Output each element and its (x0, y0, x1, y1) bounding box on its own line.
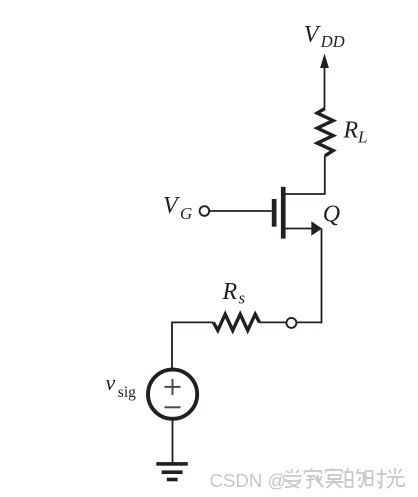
node VDD label (304, 22, 345, 51)
svg-text:Q: Q (323, 202, 340, 228)
char de (346, 468, 364, 487)
ground (156, 462, 188, 481)
source arrow of Q (311, 221, 322, 236)
wire source down to node (321, 229, 323, 324)
node VG label (163, 193, 192, 223)
char shi (366, 469, 387, 488)
wire left corner to Rs (172, 322, 213, 368)
svg-text:v: v (106, 370, 116, 395)
svg-text:sig: sig (118, 384, 136, 401)
char guang (387, 468, 404, 488)
watermark chinese glyphs (284, 468, 404, 488)
svg-text:R: R (343, 118, 359, 144)
wire vsig to ground (172, 418, 174, 463)
svg-text:s: s (239, 289, 246, 308)
svg-text:L: L (357, 128, 367, 147)
plus sign (165, 379, 181, 395)
transistor Q gate bar (272, 199, 277, 227)
char ji (305, 468, 324, 488)
label Rs (222, 279, 246, 308)
wire RL bottom to drain corner (286, 156, 325, 194)
resistor RL (317, 109, 333, 156)
svg-text:V: V (163, 193, 180, 219)
wire VG to gate (209, 210, 271, 212)
svg-text:V: V (304, 22, 321, 48)
VDD supply arrow (320, 54, 329, 69)
node open circle (286, 318, 296, 328)
wire VDD arrow to RL top (324, 66, 326, 109)
svg-text:CSDN @: CSDN @ (210, 470, 287, 491)
wire Rs right to node circle (260, 321, 287, 323)
svg-text:R: R (222, 279, 238, 305)
svg-text:DD: DD (320, 32, 345, 51)
char ai (284, 469, 302, 488)
resistor Rs (213, 314, 259, 330)
label vsig (106, 370, 137, 401)
wire node circle to source rail (297, 321, 322, 323)
wire source lead (286, 228, 315, 230)
label RL (343, 118, 368, 147)
terminal VG open circle (200, 206, 210, 216)
svg-text:G: G (180, 204, 192, 223)
minus sign (165, 406, 181, 408)
source vsig circle (148, 370, 197, 419)
transistor Q channel bar (281, 187, 286, 239)
char mo (326, 468, 344, 488)
